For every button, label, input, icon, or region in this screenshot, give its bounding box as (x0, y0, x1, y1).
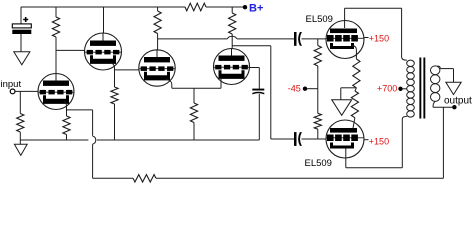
node +700 center tap (398, 87, 402, 91)
wire C1 bottom (20, 34, 22, 52)
wire input R1 drop (19, 91, 21, 113)
svg-text:+700: +700 (377, 84, 397, 94)
wire C2 to V5 grid (302, 38, 327, 40)
wire V5 plate to transformer (344, 8, 346, 20)
wire V2 cathode to V3 grid (111, 63, 139, 70)
wire B+ rail left section (21, 6, 185, 8)
svg-text:output: output (444, 95, 472, 106)
capacitor C4 coupling (294, 132, 297, 146)
wire V5 screen stub (364, 37, 369, 39)
resistor R10a V5 cathode upper (353, 59, 360, 88)
tube V2 (85, 33, 122, 70)
resistor R6 V1 cathode (63, 116, 70, 135)
wire V5 plate internal (344, 21, 346, 28)
resistor R5 tail (193, 88, 195, 103)
wire C3 to ground bus (258, 94, 260, 140)
transformer T1 core (419, 58, 421, 119)
wire secondary bottom to output (433, 101, 435, 107)
tube V5 EL509 (326, 21, 364, 59)
node -45 dot (303, 87, 307, 91)
svg-text:+150: +150 (369, 136, 389, 146)
tube V4 (214, 49, 250, 85)
resistor R2 V1 plate load (55, 7, 57, 17)
ground C1 (14, 52, 30, 65)
wire splitter cathode bus (172, 87, 221, 89)
wire V6 screen stub (364, 139, 369, 141)
wire feedback drop with hop (92, 110, 94, 136)
svg-text:EL509: EL509 (305, 158, 332, 169)
wire V1 cathode (64, 101, 67, 116)
capacitor C3 grid (252, 89, 264, 91)
svg-text:input: input (1, 79, 22, 90)
ground secondary (446, 82, 461, 94)
transformer T1 primary winding (407, 60, 415, 66)
wire V1 plate to V2 grid (56, 49, 85, 51)
capacitor C1 polarity + (23, 17, 28, 22)
resistor R7 V2 cathode (114, 70, 116, 87)
ground output stage (332, 100, 352, 116)
wire ground bus (20, 139, 88, 141)
wire V6 plate lead (353, 118, 355, 128)
wire C1 top (20, 7, 22, 24)
capacitor C2 coupling (294, 32, 297, 46)
wire feedback bus left (93, 177, 133, 179)
wire V6 cathode to transformer (345, 149, 347, 168)
resistor R10b to V6 plate (355, 88, 357, 91)
svg-text:B+: B+ (249, 2, 263, 14)
wire cathode junction to ground (341, 87, 357, 89)
wire secondary top to ground (438, 66, 441, 69)
wire -45 to grid resistors (307, 88, 318, 90)
resistor R12 B+ dropper (185, 3, 206, 11)
wire V3 cathode (166, 79, 172, 88)
wire input to V1 grid (15, 90, 38, 92)
resistor R11 feedback (133, 175, 156, 182)
wire V4 grid to C3 (250, 67, 260, 69)
wire C4 to V6 grid (302, 138, 327, 140)
svg-text:EL509: EL509 (306, 14, 333, 25)
wire V1 cathode to feedback (67, 109, 93, 111)
terminal output dot (452, 105, 456, 109)
ground input (19, 140, 21, 144)
resistor R1 input grid (17, 114, 24, 133)
svg-text:-45: -45 (288, 84, 301, 94)
resistor R3 V3 plate load (157, 7, 159, 11)
terminal input jack (10, 89, 15, 94)
transformer T1 primary entry bottom (402, 116, 407, 119)
tube V1 (38, 74, 74, 110)
resistor R4 V4 plate load (231, 7, 233, 13)
resistor R9 V6 grid bias (317, 89, 319, 114)
wire feedback bus right (156, 177, 443, 179)
transformer T1 secondary winding (431, 66, 440, 75)
capacitor C1 (12, 24, 31, 28)
wire V3 plate to C2 (158, 38, 228, 40)
transformer T1 primary entry top (402, 57, 407, 60)
wire V5 cathode (352, 45, 357, 59)
tube V6 EL509 (326, 120, 364, 158)
resistor R8 V5 grid bias (317, 39, 319, 46)
wire V4 plate tap to lower path (232, 45, 271, 47)
tube V3 (139, 50, 175, 86)
svg-text:+150: +150 (369, 33, 389, 43)
wire V2 plate to rail (103, 7, 105, 33)
wire B+ rail right section (206, 6, 245, 8)
wire V4 cathode (220, 78, 222, 89)
node B+ junction dot (243, 5, 247, 9)
